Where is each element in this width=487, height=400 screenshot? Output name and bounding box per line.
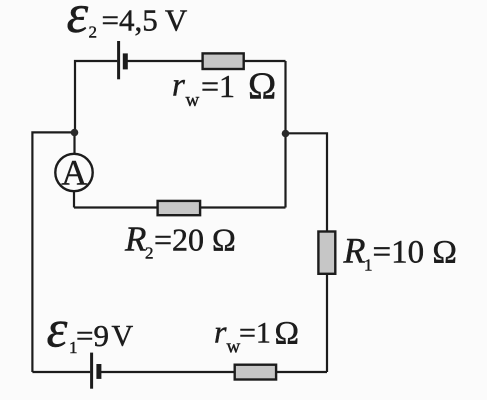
- svg-text:=1: =1: [201, 68, 235, 104]
- svg-text:A: A: [61, 153, 87, 193]
- svg-text:1: 1: [364, 256, 373, 275]
- svg-text:ε: ε: [47, 301, 68, 359]
- svg-text:R: R: [124, 219, 146, 258]
- svg-text:=10 Ω: =10 Ω: [373, 234, 457, 270]
- svg-text:V: V: [112, 320, 134, 353]
- svg-text:=20 Ω: =20 Ω: [154, 221, 236, 257]
- svg-text:=1: =1: [239, 316, 271, 349]
- svg-text:R: R: [343, 230, 366, 270]
- svg-text:Ω: Ω: [248, 66, 276, 108]
- svg-text:2: 2: [89, 22, 98, 41]
- svg-text:2: 2: [145, 243, 154, 262]
- svg-text:=9: =9: [76, 318, 109, 353]
- svg-text:w: w: [186, 90, 200, 111]
- svg-text:=4,5 V: =4,5 V: [102, 3, 188, 38]
- svg-text:ε: ε: [67, 0, 89, 44]
- svg-text:Ω: Ω: [275, 316, 300, 352]
- svg-text:r: r: [172, 68, 185, 104]
- svg-text:r: r: [214, 313, 227, 349]
